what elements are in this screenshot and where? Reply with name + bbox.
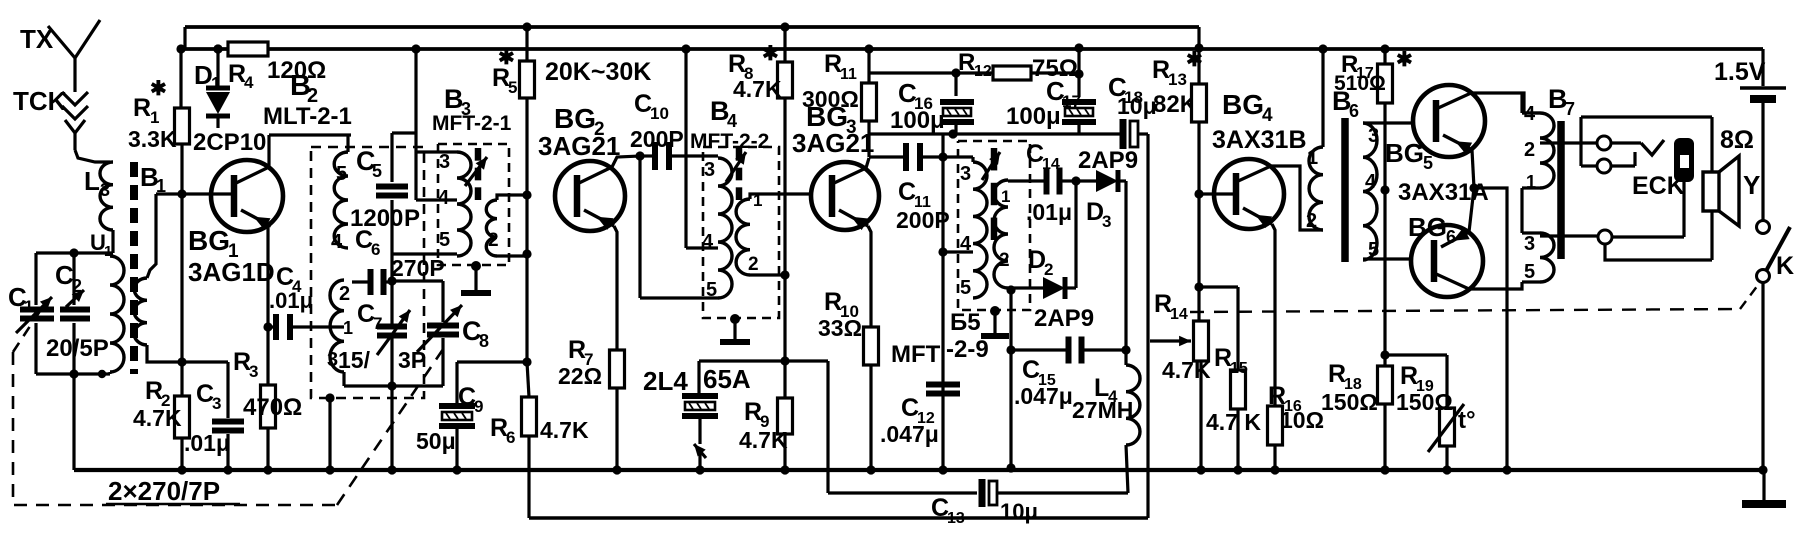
svg-text:270P: 270P: [391, 255, 445, 281]
svg-text:t°: t°: [1458, 407, 1476, 434]
svg-text:5: 5: [336, 163, 347, 185]
svg-text:✱: ✱: [1396, 49, 1413, 71]
svg-text:3.3K: 3.3K: [128, 126, 177, 152]
svg-text:Y: Y: [1743, 170, 1760, 200]
svg-text:-2-9: -2-9: [946, 336, 989, 363]
svg-text:✱: ✱: [150, 78, 167, 100]
svg-text:14: 14: [1170, 306, 1188, 323]
svg-text:MLT-2-1: MLT-2-1: [263, 103, 352, 130]
svg-text:2AP9: 2AP9: [1078, 147, 1138, 174]
svg-text:4: 4: [438, 187, 450, 209]
svg-text:15/: 15/: [338, 347, 371, 373]
svg-text:11: 11: [840, 66, 857, 83]
svg-text:65A: 65A: [703, 364, 751, 394]
svg-text:2: 2: [1524, 139, 1535, 161]
svg-text:4: 4: [702, 231, 714, 253]
svg-text:3: 3: [249, 362, 258, 381]
svg-text:3: 3: [100, 180, 110, 200]
svg-text:MFT: MFT: [891, 341, 941, 368]
svg-text:2CP10: 2CP10: [193, 129, 266, 156]
svg-text:P: P: [404, 205, 420, 232]
svg-text:6: 6: [1349, 101, 1359, 121]
svg-text:MFT-2-1: MFT-2-1: [432, 112, 512, 135]
svg-text:27MH: 27MH: [1072, 397, 1133, 423]
svg-text:4.7K: 4.7K: [739, 427, 788, 453]
svg-text:BG: BG: [188, 225, 230, 256]
svg-text:2: 2: [72, 276, 82, 296]
svg-text:1.5V: 1.5V: [1714, 58, 1766, 86]
svg-text:10: 10: [650, 104, 669, 123]
svg-text:8Ω: 8Ω: [1720, 126, 1754, 154]
svg-text:4.7K: 4.7K: [733, 76, 782, 102]
svg-text:150Ω: 150Ω: [1396, 389, 1453, 415]
svg-text:10Ω: 10Ω: [1280, 407, 1324, 433]
svg-text:4.7K: 4.7K: [540, 417, 589, 443]
svg-text:Б5: Б5: [950, 309, 981, 336]
svg-text:BG: BG: [1222, 89, 1264, 120]
svg-text:13: 13: [947, 510, 965, 527]
svg-text:3: 3: [704, 159, 715, 181]
svg-text:BG: BG: [554, 103, 596, 134]
svg-text:4.7K: 4.7K: [133, 405, 182, 431]
svg-text:3: 3: [960, 163, 971, 185]
svg-text:22Ω: 22Ω: [558, 363, 602, 389]
svg-text:4: 4: [1262, 105, 1273, 126]
svg-text:14: 14: [1042, 156, 1060, 173]
svg-text:1: 1: [343, 318, 353, 338]
svg-text:R: R: [133, 94, 151, 122]
svg-text:3AG21: 3AG21: [538, 131, 620, 161]
svg-text:3AG1D: 3AG1D: [188, 257, 275, 287]
svg-text:4: 4: [331, 231, 343, 253]
svg-text:100μ: 100μ: [890, 107, 945, 134]
svg-text:200P: 200P: [630, 126, 684, 152]
svg-text:2: 2: [488, 230, 499, 251]
svg-text:2L4: 2L4: [643, 366, 688, 396]
svg-text:2AP9: 2AP9: [1034, 305, 1094, 332]
svg-text:13: 13: [1168, 70, 1187, 89]
svg-text:BG: BG: [1408, 212, 1447, 242]
svg-text:1: 1: [1307, 147, 1318, 169]
svg-text:3: 3: [212, 394, 221, 413]
svg-text:D: D: [194, 60, 213, 90]
svg-text:3AX31B: 3AX31B: [1212, 126, 1307, 154]
svg-text:4: 4: [1365, 171, 1377, 193]
svg-text:3: 3: [1102, 212, 1111, 231]
svg-text:.047μ: .047μ: [880, 421, 939, 447]
svg-text:5: 5: [706, 279, 717, 301]
svg-text:4: 4: [244, 73, 254, 92]
svg-text:4.7K: 4.7K: [1162, 357, 1211, 383]
svg-text:470Ω: 470Ω: [243, 394, 302, 421]
svg-text:.01μ: .01μ: [1026, 199, 1072, 225]
svg-text:1: 1: [1526, 172, 1536, 192]
svg-text:MFT-2-2: MFT-2-2: [690, 130, 769, 153]
svg-text:150Ω: 150Ω: [1321, 389, 1378, 415]
svg-text:6: 6: [506, 428, 515, 447]
svg-text:20/5P: 20/5P: [46, 335, 109, 362]
svg-text:2: 2: [339, 283, 350, 305]
svg-text:1: 1: [150, 108, 159, 127]
svg-text:TCK: TCK: [13, 86, 67, 116]
svg-text:3AG21: 3AG21: [792, 128, 874, 158]
svg-text:20K~30K: 20K~30K: [545, 58, 651, 86]
svg-text:6: 6: [1446, 227, 1456, 247]
svg-text:8: 8: [479, 331, 489, 351]
svg-text:✱: ✱: [762, 43, 779, 65]
svg-text:5: 5: [1423, 153, 1433, 173]
svg-text:300Ω: 300Ω: [802, 86, 859, 112]
svg-text:3: 3: [327, 349, 338, 371]
svg-text:.01μ: .01μ: [184, 430, 230, 456]
svg-text:5: 5: [508, 78, 517, 97]
svg-text:.01μ: .01μ: [269, 288, 313, 313]
svg-text:5: 5: [960, 277, 971, 299]
svg-text:BG: BG: [1385, 138, 1424, 168]
svg-text:TX: TX: [20, 24, 54, 54]
svg-text:ECK: ECK: [1632, 172, 1685, 200]
svg-text:4: 4: [1524, 103, 1536, 125]
svg-text:2: 2: [1044, 260, 1053, 279]
svg-text:10μ: 10μ: [1117, 93, 1157, 119]
svg-text:3: 3: [1524, 233, 1535, 255]
svg-text:7: 7: [373, 314, 382, 333]
svg-text:3P: 3P: [398, 347, 426, 373]
svg-text:9: 9: [474, 397, 483, 416]
svg-text:✱: ✱: [498, 47, 515, 69]
svg-text:5: 5: [1524, 261, 1535, 283]
svg-text:100μ: 100μ: [1006, 103, 1061, 130]
svg-text:2: 2: [1306, 210, 1317, 232]
svg-text:3: 3: [439, 151, 450, 173]
svg-text:2: 2: [748, 254, 759, 275]
svg-text:3: 3: [1368, 125, 1379, 147]
svg-text:12: 12: [974, 63, 992, 80]
svg-text:1: 1: [24, 297, 33, 316]
svg-text:L: L: [84, 166, 100, 196]
svg-text:5: 5: [372, 161, 382, 181]
svg-text:.047μ: .047μ: [1014, 383, 1073, 409]
svg-text:2: 2: [999, 250, 1010, 271]
svg-text:4.7 K: 4.7 K: [1206, 409, 1261, 435]
svg-text:510Ω: 510Ω: [1334, 72, 1386, 95]
svg-text:1: 1: [211, 74, 221, 94]
svg-text:15: 15: [1230, 360, 1248, 377]
svg-text:6: 6: [371, 240, 380, 259]
svg-text:4: 4: [727, 111, 737, 131]
svg-text:5: 5: [439, 229, 450, 251]
svg-text:50μ: 50μ: [416, 428, 456, 454]
svg-text:7: 7: [1565, 99, 1575, 119]
svg-text:1: 1: [1001, 187, 1010, 206]
svg-text:17: 17: [1062, 92, 1081, 111]
svg-text:10μ: 10μ: [1000, 499, 1038, 524]
svg-text:K: K: [1776, 252, 1794, 280]
svg-text:2×270/7P: 2×270/7P: [108, 476, 220, 506]
svg-text:33Ω: 33Ω: [818, 315, 862, 341]
svg-text:R: R: [958, 49, 975, 76]
svg-text:3AX31A: 3AX31A: [1398, 179, 1489, 206]
